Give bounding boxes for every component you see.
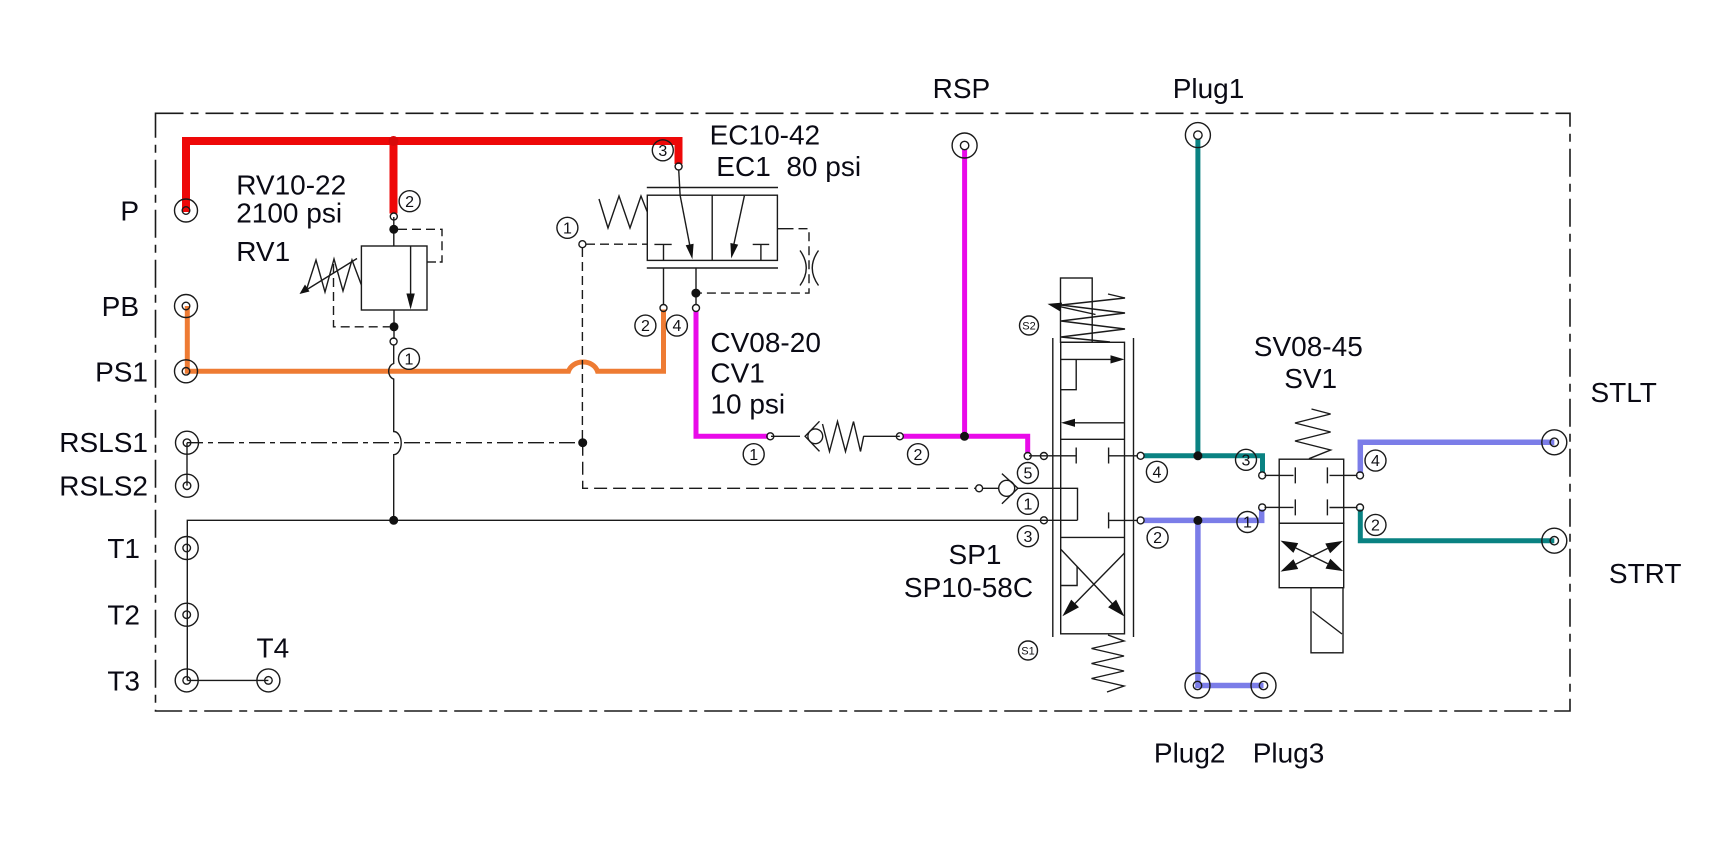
spool valve SP1 blocked port 2 bar <box>1108 512 1110 528</box>
node SV1 port 1 <box>1259 504 1266 511</box>
pin 2 of EC1 <box>635 315 656 336</box>
pin 1 of CV1 <box>743 444 764 465</box>
svg-text:STLT: STLT <box>1591 377 1657 408</box>
wire black SV1 port 2 stub <box>1344 507 1358 509</box>
svg-text:SP10-58C: SP10-58C <box>904 572 1033 603</box>
relief valve RV1 pilot stub right <box>427 261 436 263</box>
solenoid valve SV1 blocked port 1 <box>1279 499 1295 515</box>
node SP1 port 3 <box>1040 517 1047 524</box>
spool valve SP1 right rail <box>1133 338 1135 637</box>
wire black CV1 port 1 to check valve <box>771 435 800 437</box>
svg-text:RV10-22: RV10-22 <box>236 170 346 201</box>
check valve CV1 spring <box>823 422 864 452</box>
pin 3 of SV1 <box>1236 449 1257 470</box>
wire black EC1 port 3 entry from red end <box>679 170 680 196</box>
solenoid S1 badge <box>1019 641 1038 660</box>
junction dot Plug2 on purple line <box>1193 516 1202 525</box>
port STRT <box>1542 528 1567 553</box>
wire purple SV1 port 4 to STLT <box>1360 442 1554 473</box>
wire red P supply: P up, across top, down to EC1 port 3 <box>186 141 679 212</box>
svg-text:Plug2: Plug2 <box>1154 737 1226 768</box>
port RSP <box>952 133 977 158</box>
pin 5 of SP1 <box>1017 463 1038 484</box>
solenoid valve SV1 lower box <box>1279 523 1344 588</box>
pin 3 of EC1 <box>652 140 673 161</box>
svg-text:Plug3: Plug3 <box>1253 737 1325 768</box>
svg-text:T1: T1 <box>107 533 140 564</box>
wire black RV1 outlet stub <box>393 310 395 339</box>
port T1 <box>175 537 198 560</box>
node SV1 port 3 <box>1259 472 1266 479</box>
wire black SP1 port 4 stub <box>1109 455 1138 457</box>
wire magenta RSP down to CV1 outlet line <box>962 149 967 436</box>
svg-text:PS1: PS1 <box>95 356 148 387</box>
solenoid valve SV1 blocked port 3 <box>1279 467 1295 483</box>
spool valve SP1 position-1 right arrow <box>1061 355 1125 363</box>
relief valve RV1 body <box>361 246 427 310</box>
svg-text:2: 2 <box>914 447 923 464</box>
pin 4 of SV1 <box>1365 450 1386 471</box>
wire magenta EC1 port 4 down to CV1 port 1 <box>696 311 768 436</box>
svg-text:4: 4 <box>1152 464 1161 481</box>
svg-text:CV08-20: CV08-20 <box>710 327 821 358</box>
node SP1 port 2 <box>1137 517 1144 524</box>
port Plug3 <box>1251 673 1276 698</box>
node red end at RV1 port 2 <box>390 213 397 220</box>
svg-text:RSLS1: RSLS1 <box>59 427 148 458</box>
pilot ball check at SP1 port 1 <box>999 474 1018 504</box>
svg-text:1: 1 <box>405 351 414 368</box>
svg-text:PB: PB <box>102 291 139 322</box>
svg-text:3: 3 <box>658 143 667 160</box>
svg-text:10 psi: 10 psi <box>710 388 785 419</box>
port T4 <box>257 669 280 692</box>
wire black SV1 port 1 stub <box>1265 506 1280 508</box>
wire black RV1 port 1 down to tank line (hops over orange and RSLS1 lines) <box>389 345 402 521</box>
pin 4 of EC1 <box>666 315 687 336</box>
pin 2 of CV1 <box>908 444 929 465</box>
node CV1 port 2 <box>896 433 903 440</box>
svg-text:2: 2 <box>1153 530 1162 547</box>
svg-text:1: 1 <box>749 447 758 464</box>
junction dot RSP on magenta line <box>960 432 969 441</box>
wire dashed load-sense jog down to SP1 pilot ball <box>583 443 976 489</box>
node SV1 port 2 <box>1357 504 1364 511</box>
svg-text:1: 1 <box>1023 496 1032 513</box>
junction dot RV1 inlet pilot tap <box>389 225 398 234</box>
svg-text:SV1: SV1 <box>1284 363 1337 394</box>
check valve CV1 ball <box>808 429 823 444</box>
wire black SV1 port 3 stub <box>1265 474 1280 476</box>
pin 1 of SP1 <box>1017 493 1038 514</box>
node EC1 port 2 orange end <box>660 305 667 312</box>
solenoid valve SV1 blocked port 2 <box>1327 499 1343 515</box>
solenoid S2 badge <box>1020 316 1039 335</box>
pin 1 of EC1 <box>557 217 578 238</box>
spool valve SP1 body envelope <box>1061 342 1125 634</box>
svg-text:Plug1: Plug1 <box>1173 73 1245 104</box>
solenoid cartridge valve EC1 lower rail <box>647 267 778 269</box>
junction dot load-sense corner <box>578 438 587 447</box>
svg-text:EC10-42: EC10-42 <box>710 120 821 151</box>
svg-text:SV08-45: SV08-45 <box>1254 331 1363 362</box>
junction dot EC1 port 4 pilot tap <box>691 289 700 298</box>
pin 2 of SV1 <box>1365 514 1386 535</box>
solenoid valve SV1 cross arrow A <box>1281 541 1344 572</box>
wire teal SV1 port 2 to STRT <box>1360 510 1554 541</box>
port P <box>175 199 198 222</box>
relief valve RV1 adjustment arrow <box>300 259 358 295</box>
node EC1 port 1 <box>579 241 586 248</box>
pin 2 of RV1 <box>399 191 420 212</box>
spool valve SP1 position-3 cross arrow A <box>1061 550 1125 617</box>
solenoid valve SV1 cross arrow B <box>1281 541 1344 572</box>
solenoid cartridge valve EC1 right flow arrow <box>730 196 744 259</box>
wire black pilot ball to SP1 port 1 and internal passage <box>983 488 1078 520</box>
solenoid cartridge valve EC1 center divider <box>711 195 713 260</box>
spool valve SP1 blocked port 4 bar <box>1108 448 1110 464</box>
wire black SP1 port 5 entry <box>1029 455 1076 457</box>
port PB <box>175 295 198 318</box>
solenoid valve SV1 coil box <box>1311 588 1343 653</box>
solenoid cartridge valve EC1 right pilot stub <box>777 228 784 230</box>
spool valve SP1 position-1 branch <box>1061 359 1076 389</box>
solenoid cartridge valve EC1 spring <box>599 196 647 228</box>
node SV1 port 4 <box>1357 472 1364 479</box>
node red end at EC1 port 3 <box>675 163 682 170</box>
svg-text:T3: T3 <box>107 665 140 696</box>
port RSLS1 <box>176 431 199 454</box>
svg-text:RSLS2: RSLS2 <box>59 471 148 502</box>
junction dot Plug1 on teal line <box>1193 451 1202 460</box>
relief valve RV1 spring <box>307 259 361 292</box>
junction dot RV1 drain on tank line <box>389 516 398 525</box>
spool valve SP1 bottom spring <box>1092 635 1125 692</box>
node SP1 port 4 <box>1137 452 1144 459</box>
spool valve SP1 position-1 left arrow <box>1061 419 1125 427</box>
check valve CV1 seat <box>805 421 819 451</box>
solenoid cartridge valve EC1 body <box>647 195 777 260</box>
svg-text:STRT: STRT <box>1609 558 1682 589</box>
svg-text:EC1 80 psi: EC1 80 psi <box>716 151 861 182</box>
pin 4 of SP1 <box>1146 461 1167 482</box>
spool valve SP1 left rail <box>1052 338 1054 637</box>
pin 1 of SV1 <box>1237 512 1258 533</box>
solenoid cartridge valve EC1 upper rail <box>647 187 778 189</box>
relief valve RV1 spring drain dashed left loop <box>334 264 390 327</box>
spool valve SP1 divider lower <box>1061 536 1125 538</box>
wire purple SP1 port 2 to SV1 port 1 <box>1144 510 1262 521</box>
svg-text:P: P <box>120 196 139 227</box>
wire red branch down to RV1 port 2 <box>390 141 398 214</box>
wire black EC1 outlet to port 4 <box>695 268 697 305</box>
pin 2 of SP1 <box>1147 527 1168 548</box>
svg-text:2: 2 <box>641 318 650 335</box>
svg-text:1: 1 <box>563 220 572 237</box>
relief valve RV1 flow arrow <box>406 247 414 310</box>
wire black T3 to T4 <box>187 679 268 681</box>
svg-text:T2: T2 <box>107 600 140 631</box>
wire black EC1 drain to port 2 <box>663 268 665 305</box>
port T2 <box>175 603 198 626</box>
wire orange PB to PS1 to EC1 port 2 (hop over pilot dash line) <box>187 306 663 371</box>
svg-text:RSP: RSP <box>933 73 991 104</box>
spool valve SP1 position-3 step passage <box>1061 567 1077 586</box>
solenoid cartridge valve EC1 right pilot dashed loop <box>700 229 809 293</box>
node load-sense end before pilot ball <box>976 485 983 492</box>
solenoid cartridge valve EC1 left blocked port <box>654 244 671 260</box>
wire teal Plug1 down to SP1 port 4 line <box>1195 139 1200 456</box>
solenoid cartridge valve EC1 pilot orifice <box>800 251 819 286</box>
relief valve RV1 pilot dashed right loop <box>398 229 442 262</box>
spool valve SP1 blocked port 5 bar <box>1075 448 1077 464</box>
pin 3 of SP1 <box>1017 526 1038 547</box>
node magenta end at SP1 port 5 <box>1024 453 1031 460</box>
spool valve SP1 top spring <box>1061 294 1125 342</box>
wire black check valve to CV1 port 2 <box>864 435 900 437</box>
wire magenta CV1 port 2 to SP1 port 5 <box>903 436 1028 453</box>
svg-text:S1: S1 <box>1021 646 1034 658</box>
svg-text:4: 4 <box>1371 453 1380 470</box>
svg-text:2: 2 <box>405 194 414 211</box>
svg-text:4: 4 <box>672 318 681 335</box>
solenoid cartridge valve EC1 left flow arrow <box>680 195 694 259</box>
spool valve SP1 proportional pilot box <box>1061 278 1093 342</box>
svg-text:S2: S2 <box>1022 321 1035 333</box>
svg-text:1: 1 <box>1243 515 1252 532</box>
port STLT <box>1542 430 1567 455</box>
solenoid valve SV1 spring <box>1295 409 1331 459</box>
solenoid valve SV1 blocked port 4 <box>1327 467 1343 483</box>
wire dashed EC1 port 1 pilot down to junction <box>581 248 583 443</box>
wire black RV1 inlet from red end <box>393 217 395 246</box>
node SP1 port 5 <box>1040 453 1047 460</box>
wire dashed RSLS1 load-sense line to junction <box>187 442 583 444</box>
svg-text:T4: T4 <box>257 632 290 663</box>
wire black RSLS1 to RSLS2 <box>186 443 188 486</box>
port Plug2 <box>1185 673 1210 698</box>
solenoid cartridge valve EC1 right blocked port <box>753 244 770 260</box>
port T3 <box>175 669 198 692</box>
node RV1 port 1 <box>390 338 397 345</box>
port RSLS2 <box>176 474 199 497</box>
svg-text:5: 5 <box>1023 466 1032 483</box>
svg-text:3: 3 <box>1242 452 1251 469</box>
wire purple Plug2 riser and Plug2 to Plug3 <box>1198 520 1264 685</box>
node CV1 port 1 <box>767 433 774 440</box>
solenoid valve SV1 upper box <box>1279 459 1344 523</box>
solenoid cartridge valve EC1 port 1 dashed pilot stub <box>586 243 647 245</box>
svg-text:3: 3 <box>1023 529 1032 546</box>
junction red at top bus <box>389 136 399 146</box>
svg-text:2100 psi: 2100 psi <box>236 198 342 229</box>
spool valve SP1 divider upper <box>1061 438 1125 440</box>
svg-text:CV1: CV1 <box>710 357 764 388</box>
port Plug1 <box>1185 123 1210 148</box>
junction dot RV1 outlet pilot tap <box>390 322 399 331</box>
spool valve SP1 position-3 cross arrow B <box>1062 553 1124 616</box>
wire black tank line T1..T3 up and across to SP1 port 3 <box>187 520 1077 680</box>
spool valve SP1 proportional arrow <box>1048 303 1096 315</box>
node EC1 port 4 magenta end <box>693 305 700 312</box>
svg-text:2: 2 <box>1371 518 1380 535</box>
wire black SP1 port 2 stub <box>1109 519 1138 521</box>
wire black SV1 port 4 stub <box>1344 474 1358 476</box>
port PS1 <box>175 360 198 383</box>
wire teal SP1 port 4 to SV1 port 3 <box>1144 456 1263 473</box>
pin 1 of RV1 <box>399 348 420 369</box>
svg-text:RV1: RV1 <box>236 236 290 267</box>
border frame (dash-dot envelope) <box>156 113 1571 711</box>
svg-text:SP1: SP1 <box>949 539 1002 570</box>
